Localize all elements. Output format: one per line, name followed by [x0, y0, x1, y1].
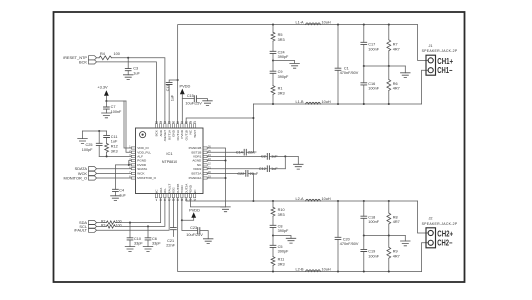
- junction node C18/C19 on mid line: [363, 234, 365, 236]
- svg-text:10uH: 10uH: [322, 100, 331, 104]
- svg-text:390pF: 390pF: [278, 250, 289, 254]
- inductor L2-B 10uH: [295, 267, 330, 271]
- svg-text:R9: R9: [393, 250, 398, 254]
- svg-text:10uH: 10uH: [322, 267, 331, 271]
- svg-text:C5: C5: [278, 245, 283, 249]
- svg-text:100nF: 100nF: [368, 87, 379, 91]
- svg-text:1uF: 1uF: [119, 193, 126, 197]
- svg-text:R10: R10: [278, 208, 285, 212]
- wire PGND bottom pin to ground column: [190, 198, 225, 207]
- ground below PGND column: [221, 207, 231, 212]
- junction node C1 on L1-B: [337, 103, 339, 105]
- inductor L1-A 10uH: [295, 20, 330, 24]
- svg-text:33pF: 33pF: [134, 242, 143, 246]
- svg-text:33pF: 33pF: [152, 242, 161, 246]
- svg-text:3R3: 3R3: [278, 213, 285, 217]
- svg-text:BST2A: BST2A: [191, 172, 202, 176]
- svg-text:4R7: 4R7: [393, 47, 400, 51]
- svg-text:C8: C8: [278, 224, 283, 228]
- junction node R8 on L2-A: [388, 200, 390, 202]
- IC1 bottom pin boxes: [155, 194, 195, 198]
- svg-text:R1: R1: [278, 87, 283, 91]
- svg-text:VDR2: VDR2: [193, 167, 202, 171]
- svg-text:3K3: 3K3: [111, 149, 118, 153]
- capacitor C3 1uF: [125, 58, 140, 76]
- schematic frame border: [54, 12, 465, 282]
- junction node C16 on L1-B: [363, 103, 365, 105]
- svg-text:100: 100: [116, 224, 122, 228]
- svg-text:100nF: 100nF: [368, 254, 379, 258]
- svg-text:10uF/25V: 10uF/25V: [185, 101, 202, 105]
- capacitor C24 390pF: [270, 41, 289, 60]
- junction node C20 on L2-A: [337, 200, 339, 202]
- connector pin MONITOR_O: [89, 176, 97, 180]
- svg-text:C24: C24: [278, 50, 285, 54]
- junction node C17/C16 on mid line: [363, 65, 365, 67]
- svg-text:1uF: 1uF: [171, 94, 175, 101]
- junction node OUT1B riser: [252, 117, 254, 119]
- capacitor C11 1uF: [104, 131, 118, 144]
- ground below C23: [203, 239, 213, 244]
- svg-text:C14: C14: [236, 151, 243, 155]
- resistor R8 4R7: [387, 201, 400, 236]
- svg-text:22nF: 22nF: [248, 151, 257, 155]
- ground of zobel1: [401, 66, 411, 78]
- svg-text:CH2−: CH2−: [437, 239, 452, 248]
- capacitor C23 10uF/25V: [182, 220, 208, 239]
- connector pin SCL: [89, 224, 97, 228]
- ground of snubber1: [273, 61, 299, 69]
- svg-text:1uF: 1uF: [271, 154, 278, 158]
- svg-text:IC1: IC1: [166, 151, 173, 156]
- capacitor C13 1uF (bootstrap BST1A): [166, 80, 178, 124]
- capacitor C16 100nF: [361, 66, 380, 104]
- capacitor C9 390pF: [270, 61, 289, 86]
- svg-text:SPEAKER-JACK-2P: SPEAKER-JACK-2P: [422, 222, 458, 226]
- IC1 left pin boxes: [131, 147, 135, 179]
- wire R2 to SDA pin of IC1: [115, 198, 160, 223]
- capacitor C1 470nF/50V: [335, 25, 359, 104]
- capacitor C8 390pF: [270, 216, 289, 235]
- svg-text:C3: C3: [133, 67, 138, 71]
- svg-text:100nF: 100nF: [368, 220, 379, 224]
- svg-text:C23: C23: [190, 226, 197, 230]
- svg-text:R6: R6: [393, 82, 398, 86]
- junction node snubber1 mid: [272, 59, 274, 61]
- svg-text:C7: C7: [111, 105, 116, 109]
- IC1 left pin labels: [137, 146, 156, 180]
- junction node BST2A on L2-A: [252, 200, 254, 202]
- svg-text:+3.3V: +3.3V: [97, 85, 108, 90]
- svg-text:10uF/25V: 10uF/25V: [186, 233, 203, 237]
- ground below C7: [102, 113, 112, 118]
- capacitor C6 33pF: [145, 226, 161, 246]
- capacitor C7 100nF: [104, 101, 123, 114]
- svg-text:C11: C11: [111, 135, 118, 139]
- svg-text:TEST: TEST: [193, 130, 197, 138]
- svg-text:R7: R7: [393, 43, 398, 47]
- power PVDD (bottom): [182, 207, 200, 220]
- junction node R12/C25: [106, 155, 108, 157]
- connector pin BCK: [89, 60, 97, 64]
- svg-text:4R7: 4R7: [393, 220, 400, 224]
- capacitor C25 100pF: [82, 131, 102, 156]
- svg-text:1uF: 1uF: [111, 139, 118, 143]
- svg-text:4R7: 4R7: [393, 87, 400, 91]
- capacitor C18 100nF: [361, 201, 380, 236]
- capacitor C5 390pF: [270, 236, 289, 257]
- resistor R2 100: [101, 219, 122, 224]
- capacitor C19 100nF: [361, 236, 380, 272]
- wire /FAULT to IC1: [97, 198, 170, 230]
- resistor R11 3R3: [271, 257, 284, 272]
- svg-text:100nF: 100nF: [111, 110, 122, 114]
- svg-text:R5: R5: [278, 33, 283, 37]
- svg-text:C20: C20: [343, 238, 350, 242]
- op-amp U1 : amplifier IC1 NTP8810 body: [136, 128, 204, 194]
- connector pin SDATA: [89, 167, 97, 171]
- wire BCK to BCK pin of IC1: [97, 62, 157, 124]
- svg-text:C12: C12: [259, 167, 266, 171]
- svg-text:PVDD: PVDD: [179, 83, 190, 88]
- resistor R12 3K3: [105, 143, 118, 153]
- junction node snubber1 on OUT1A: [272, 24, 274, 26]
- svg-text:C21: C21: [167, 239, 174, 243]
- wire bottom PVDD pin of IC1: [181, 198, 183, 221]
- svg-text:WCK: WCK: [137, 172, 145, 176]
- wire PGND pin jog: [129, 161, 132, 165]
- resistor R7 4R7: [387, 25, 400, 66]
- capacitor C22 22nF (bootstrap BST2A): [207, 171, 259, 202]
- svg-text:C1: C1: [344, 66, 349, 70]
- junction node C25 on rail: [98, 130, 100, 132]
- svg-text:L1-B: L1-B: [295, 100, 303, 104]
- junction node SDA/C10: [129, 222, 131, 224]
- svg-text:390pF: 390pF: [278, 75, 289, 79]
- capacitor C10 33pF: [127, 223, 143, 247]
- svg-text:MONITOR_O: MONITOR_O: [137, 176, 156, 180]
- junction node snubber2 on L2-B: [272, 270, 274, 272]
- svg-text:390pF: 390pF: [278, 229, 289, 233]
- ground below C4: [111, 196, 121, 201]
- svg-text:PGND: PGND: [137, 159, 147, 163]
- capacitor C17 100nF: [361, 25, 380, 66]
- ground at left end of PLL rail: [78, 131, 88, 143]
- svg-text:NC: NC: [193, 189, 197, 194]
- wire +3.3V to VDD_IO / VDD_PLL pins: [106, 101, 131, 152]
- connector pin /FAULT: [89, 228, 97, 232]
- junction node C1 on L1-A: [337, 24, 339, 26]
- wire PGND1B/AGND/PGND2A ground column: [207, 148, 225, 207]
- svg-text:BCK: BCK: [79, 59, 87, 64]
- junction node C19 on L2-B: [363, 270, 365, 272]
- resistor R10 3R3: [271, 201, 284, 217]
- junction node C13 on OUT1A: [177, 79, 179, 81]
- svg-text:C2: C2: [261, 154, 266, 158]
- connector J1 SPEAKER-JACK-2P: [422, 44, 458, 75]
- svg-text:R8: R8: [393, 215, 398, 219]
- wire PLL filter rail: [83, 130, 107, 132]
- IC1 bottom pin labels (rotated): [155, 183, 197, 194]
- svg-text:100pF: 100pF: [82, 148, 93, 152]
- junction node SCL/C6: [147, 225, 149, 227]
- junction node PGND/DVDD: [128, 164, 130, 166]
- pin-1 marker circle of IC1: [140, 132, 146, 138]
- svg-text:100nF: 100nF: [368, 47, 379, 51]
- wire OUT1A to L1-A: [178, 25, 418, 124]
- wire L2-B to J2 pin 2: [422, 243, 429, 272]
- svg-text:L2-B: L2-B: [295, 267, 303, 271]
- wire R3 to SCL pin of IC1: [115, 198, 165, 227]
- junction node VDR1/VDR2 tie: [284, 155, 286, 157]
- svg-text:22nF: 22nF: [166, 244, 175, 248]
- svg-text:PGND2A: PGND2A: [189, 176, 203, 180]
- svg-text:PVDD: PVDD: [189, 207, 200, 212]
- wire SDATA to IC1: [97, 168, 132, 170]
- svg-text:R11: R11: [278, 258, 285, 262]
- wire zobel1 mid line: [364, 65, 406, 67]
- svg-text:C22: C22: [237, 172, 244, 176]
- capacitor C2 1uF (VDR1): [207, 154, 298, 165]
- junction node R7/R6 on mid line: [388, 65, 390, 67]
- resistor R3 100: [101, 224, 122, 228]
- wire L1-A to J1 pin 1: [418, 25, 429, 61]
- IC1 left pin numbers: [129, 146, 131, 179]
- resistor R5 3R3: [271, 25, 284, 42]
- svg-text:C15: C15: [187, 94, 194, 98]
- svg-text:L2-A: L2-A: [295, 197, 303, 201]
- wire OUT1B to L1-B: [186, 104, 421, 124]
- svg-text:10uH: 10uH: [322, 20, 331, 24]
- IC1 right pin boxes: [203, 147, 207, 179]
- junction node C17 on L1-A: [363, 24, 365, 26]
- svg-text:470nF/50V: 470nF/50V: [340, 242, 359, 246]
- capacitor C12 1uF (VDR2): [207, 166, 285, 172]
- wire L1-B to J1 pin 2: [422, 70, 429, 104]
- ground below C10: [125, 247, 135, 252]
- svg-text:NTP8810: NTP8810: [162, 160, 177, 164]
- svg-text:J1: J1: [428, 44, 432, 48]
- junction node C20 on L2-B: [337, 270, 339, 272]
- svg-text:10uH: 10uH: [322, 197, 331, 201]
- wire R4 to /RESET pin of IC1: [112, 58, 165, 124]
- svg-text:C25: C25: [86, 143, 93, 147]
- wire SDA to R2: [97, 222, 107, 224]
- svg-text:R12: R12: [111, 145, 118, 149]
- IC1 right pin numbers: [208, 146, 211, 179]
- svg-text:CH1−: CH1−: [437, 66, 452, 75]
- svg-text:C4: C4: [119, 189, 124, 193]
- connector J2 SPEAKER-JACK-2P: [422, 216, 458, 247]
- svg-text:3R3: 3R3: [278, 262, 285, 266]
- resistor R1 3R3: [271, 86, 284, 104]
- junction node R9 on L2-B: [388, 270, 390, 272]
- inductor L1-B 10uH: [295, 100, 330, 104]
- svg-text:22nF: 22nF: [250, 172, 259, 176]
- svg-text:390pF: 390pF: [278, 55, 289, 59]
- capacitor C15 10uF/25V: [182, 94, 207, 105]
- IC1 bottom pin numbers: [156, 199, 197, 202]
- wire DVDD pin to C4: [115, 165, 131, 189]
- svg-text:3R3: 3R3: [278, 38, 285, 42]
- junction node R7 on L1-A: [388, 24, 390, 26]
- wire WCK to IC1: [97, 172, 132, 174]
- wire VDR tie riser: [284, 156, 286, 168]
- wire BST1B riser: [252, 104, 254, 152]
- ground below C3: [123, 75, 133, 80]
- wire /RESET_NTP to R4: [97, 57, 100, 59]
- svg-text:4R7: 4R7: [393, 254, 400, 258]
- ground below C6: [143, 247, 153, 252]
- svg-text:MONITOR_O: MONITOR_O: [64, 175, 88, 180]
- junction node PGND2A on ground column: [224, 177, 226, 179]
- svg-text:C10: C10: [134, 237, 141, 241]
- svg-text:L1-A: L1-A: [295, 20, 303, 24]
- svg-text:C6: C6: [152, 237, 157, 241]
- svg-text:100: 100: [114, 52, 120, 56]
- capacitor C14 22nF (bootstrap BST1B): [207, 149, 257, 155]
- svg-text:C9: C9: [278, 70, 283, 74]
- svg-text:C16: C16: [368, 82, 375, 86]
- inductor L2-A 10uH: [295, 197, 330, 201]
- junction node C18 on L2-A: [363, 200, 365, 202]
- capacitor C20 470nF/50V: [335, 201, 359, 272]
- IC1 top pin labels (rotated): [155, 129, 197, 141]
- IC1 top pin numbers: [155, 121, 197, 124]
- junction node R6 on L1-B: [388, 103, 390, 105]
- junction node snubber2 on L2-A: [272, 200, 274, 202]
- capacitor C4 1uF: [113, 189, 127, 198]
- svg-text:J2: J2: [428, 216, 432, 220]
- svg-text:CH1+: CH1+: [437, 57, 453, 66]
- power PVDD (top): [179, 83, 190, 123]
- junction node PVDD bottom: [181, 219, 183, 221]
- svg-text:3R3: 3R3: [278, 91, 285, 95]
- wire SCL to R3: [97, 225, 107, 227]
- svg-text:SDATA: SDATA: [137, 167, 148, 171]
- junction node at +3.3V / C7: [105, 100, 107, 102]
- junction node snubber1 on L1-B: [272, 103, 274, 105]
- svg-text:470nF/50V: 470nF/50V: [340, 71, 359, 75]
- connector pin SDA: [89, 221, 97, 225]
- svg-text:C18: C18: [368, 215, 375, 219]
- svg-text:C17: C17: [368, 43, 375, 47]
- ground of zobel2: [401, 236, 411, 246]
- connector pin WCK: [89, 171, 97, 175]
- resistor R4 100: [99, 52, 120, 60]
- wire L2-A to J2 pin 1: [418, 201, 429, 233]
- svg-text:R3: R3: [101, 224, 105, 228]
- junction node AGND on ground column: [224, 159, 226, 161]
- connector pin /RESET_NTP: [89, 56, 97, 60]
- power +3.3V: [97, 85, 108, 101]
- wire OUT2B to L2-B: [178, 198, 422, 272]
- junction node R8/R9 on mid line: [388, 234, 390, 236]
- svg-text:1uF: 1uF: [133, 71, 140, 75]
- svg-text:CH2+: CH2+: [437, 229, 453, 238]
- svg-text:C13: C13: [166, 85, 170, 92]
- wire MONITOR_O to IC1: [97, 177, 132, 179]
- wire zobel2 mid line: [364, 235, 406, 237]
- IC1 right pin labels: [189, 146, 203, 180]
- svg-text:/FAULT: /FAULT: [74, 228, 88, 233]
- capacitor C21 22nF: [166, 198, 176, 248]
- wire OUT2A to L2-A: [186, 198, 417, 201]
- IC1 top pin boxes: [155, 124, 195, 128]
- svg-text:1uF: 1uF: [271, 167, 278, 171]
- ground below C15: [203, 101, 213, 106]
- svg-text:AGND: AGND: [192, 159, 202, 163]
- svg-text:C19: C19: [368, 250, 375, 254]
- wire PLL filter to ALF pin: [99, 152, 131, 156]
- junction node on /RESET wire: [127, 57, 129, 59]
- junction node snubber2 mid: [272, 234, 274, 236]
- ground of snubber2: [273, 236, 296, 244]
- resistor R6 4R7: [387, 66, 400, 104]
- resistor R9 4R7: [387, 236, 400, 272]
- svg-text:SPEAKER-JACK-2P: SPEAKER-JACK-2P: [422, 49, 458, 53]
- ground of VDR decoupling: [294, 164, 304, 169]
- svg-text:R4: R4: [100, 52, 105, 56]
